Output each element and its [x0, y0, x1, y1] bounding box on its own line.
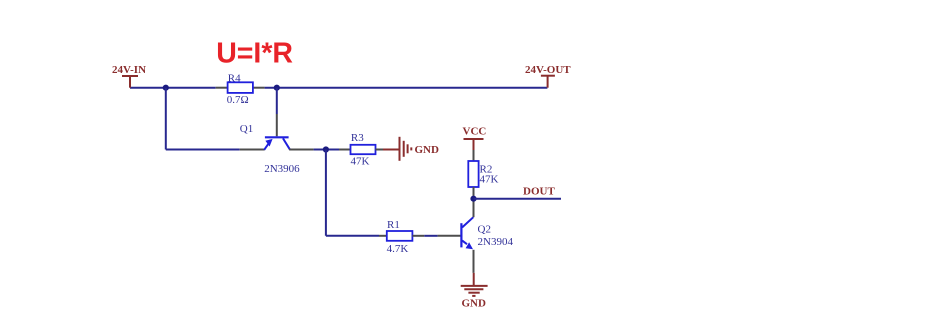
wire R4 left pin [216, 87, 228, 89]
ground symbol sideways [400, 137, 412, 161]
port 24V-IN [112, 64, 146, 88]
node junction left of R4 [163, 85, 169, 91]
wire Q1 base pin [276, 114, 278, 136]
wire Q2 emitter pin [473, 250, 475, 273]
transistor Q1 [240, 123, 300, 175]
wire R1 left pin [379, 235, 387, 237]
wire collector to node [314, 149, 339, 151]
wire R2 top pin [473, 150, 475, 161]
node junction Q1 collector [323, 146, 329, 152]
svg-text:2N3904: 2N3904 [478, 236, 514, 248]
wire R3 right pin [376, 149, 384, 151]
svg-text:GND: GND [462, 298, 487, 310]
svg-text:47K: 47K [351, 156, 370, 168]
resistor R3 [351, 132, 376, 167]
ground stub (right of R3) [383, 149, 400, 151]
wire Q1 base vertical blue [276, 88, 278, 114]
svg-text:DOUT: DOUT [523, 186, 555, 198]
svg-text:R4: R4 [228, 72, 241, 84]
svg-text:24V-OUT: 24V-OUT [525, 64, 571, 76]
svg-text:0.7Ω: 0.7Ω [227, 94, 249, 106]
resistor R2 [468, 161, 498, 187]
power VCC [463, 126, 487, 151]
wire node to R1 vertical [325, 150, 327, 236]
wire Q1 collector pin [289, 149, 313, 151]
svg-text:4.7K: 4.7K [387, 243, 409, 255]
wire Q1 emitter pin [240, 149, 265, 151]
svg-text:Q1: Q1 [240, 123, 253, 135]
wire R3 left pin [339, 149, 351, 151]
svg-text:R1: R1 [387, 219, 400, 231]
wire left branch horizontal [166, 149, 240, 151]
wire R4 right pin [253, 87, 265, 89]
wire R1 to Q2 [424, 235, 437, 237]
svg-text:VCC: VCC [463, 126, 487, 138]
svg-text:47K: 47K [480, 174, 499, 186]
svg-text:Q2: Q2 [478, 224, 491, 236]
node junction DOUT [470, 196, 476, 202]
wire R2 bottom pin [473, 187, 475, 199]
resistor R4 [227, 72, 253, 106]
svg-text:24V-IN: 24V-IN [112, 64, 146, 76]
wire top rail left [130, 87, 216, 89]
wire R1 right pin [412, 235, 424, 237]
svg-text:GND: GND [415, 144, 440, 156]
wire Q2 collector pin [473, 199, 475, 218]
ground stub bottom [473, 273, 475, 286]
node junction right of R4 [274, 85, 280, 91]
wire left branch vertical [165, 88, 167, 150]
transistor Q2 [461, 217, 513, 249]
wire DOUT [474, 198, 562, 200]
svg-text:U=I*R: U=I*R [216, 37, 293, 69]
ground symbol bottom [461, 286, 488, 296]
svg-text:2N3906: 2N3906 [264, 163, 300, 175]
svg-text:R3: R3 [351, 132, 364, 144]
wire Q2 base pin [438, 235, 461, 237]
resistor R1 [387, 219, 413, 255]
wire R1 row horizontal [326, 235, 379, 237]
wire top rail right [265, 87, 548, 89]
port 24V-OUT [525, 64, 571, 88]
